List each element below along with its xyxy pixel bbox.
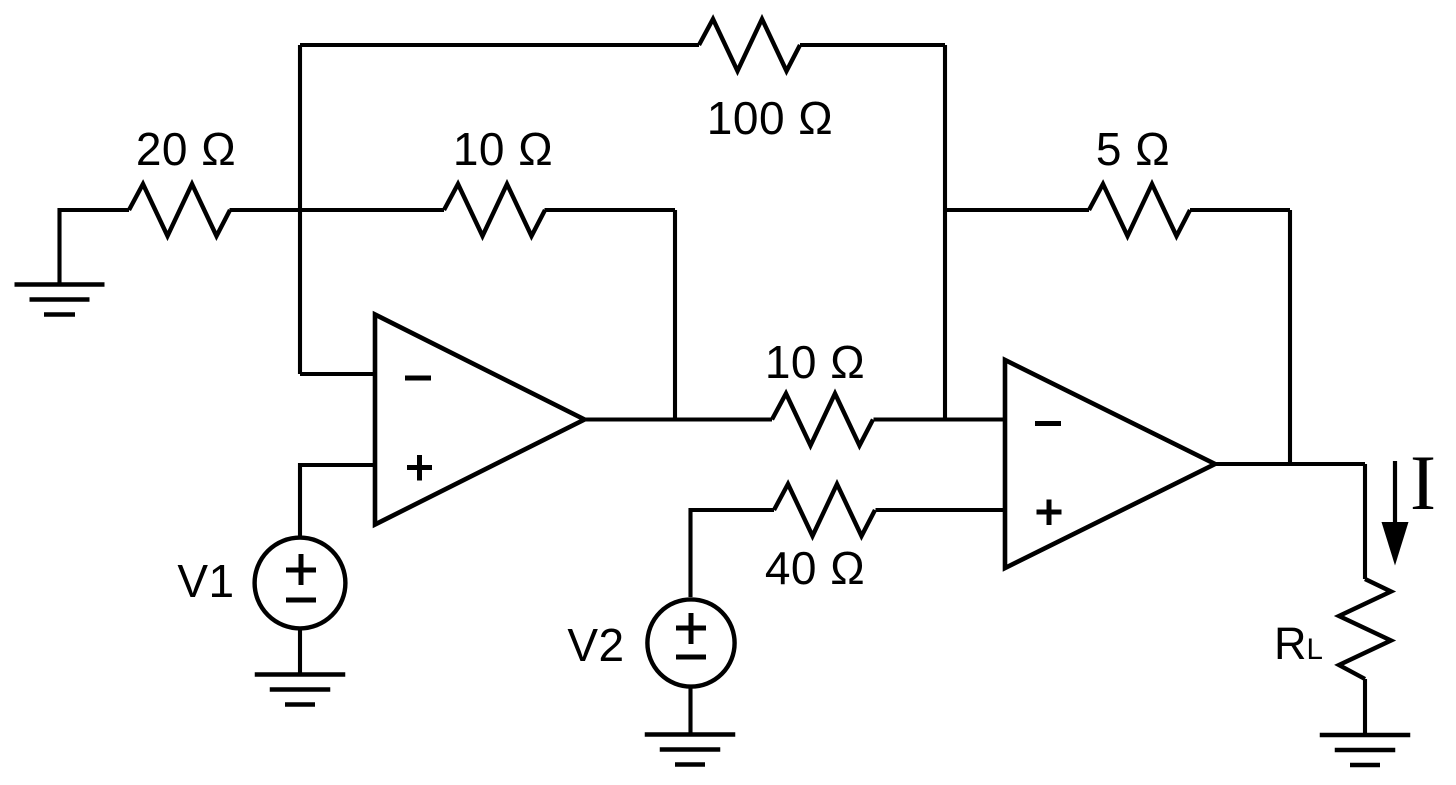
resistor R1 20-ohm — [129, 184, 230, 236]
wire: top net to R3 — [300, 43, 699, 47]
wire: U2 output to load corner — [1215, 462, 1365, 466]
wire: R2 right side to corner — [545, 208, 676, 212]
svg-text:V1: V1 — [177, 555, 234, 607]
wire: V1 to ground — [298, 629, 302, 675]
svg-text:100 Ω: 100 Ω — [707, 92, 833, 144]
wire: inverting riser (node A) — [298, 45, 302, 374]
wire: V2 riser to R6 — [691, 510, 775, 597]
V2 plus-minus marks — [676, 613, 706, 657]
ground (under RL) — [1320, 735, 1411, 765]
resistor R5 10-ohm (between stages) — [772, 394, 873, 446]
ground (under V1) — [255, 675, 346, 705]
ground (left, under 20 ohm) — [15, 285, 105, 315]
voltage source V2 — [647, 599, 734, 686]
U1 minus sign — [405, 376, 431, 381]
svg-text:10 Ω: 10 Ω — [765, 336, 865, 388]
svg-text:V2: V2 — [567, 619, 624, 671]
wire: R4 to corner — [1190, 208, 1290, 212]
wire: corner down to U1 output node — [673, 210, 677, 420]
wire: U1 output to R5 — [585, 417, 773, 421]
U2 minus sign — [1035, 421, 1061, 426]
wire: U1 inverting input — [300, 372, 375, 376]
wire: R6 to U2 non-inverting input — [876, 508, 1006, 512]
svg-text:5 Ω: 5 Ω — [1096, 123, 1170, 175]
wire: right riser down to U2 inverting input — [943, 45, 947, 420]
wire: riser to R4 — [945, 208, 1089, 212]
ground (under V2) — [645, 735, 736, 765]
wire: V2 to ground — [688, 687, 692, 735]
svg-text:10 Ω: 10 Ω — [453, 123, 553, 175]
voltage source V1 — [255, 538, 346, 629]
resistor R6 40-ohm — [774, 484, 875, 536]
wire: corner down to RL — [1363, 464, 1367, 579]
svg-text:40 Ω: 40 Ω — [765, 542, 865, 594]
wire: R5 to U2 inverting input — [874, 417, 1006, 421]
op-amp U2 — [1005, 360, 1215, 568]
svg-text:I: I — [1410, 439, 1436, 526]
wire: corner down to U2 output — [1288, 210, 1292, 464]
wire: R1 to R2 (inverting node of U1) — [230, 208, 445, 212]
V1 plus-minus marks — [286, 554, 316, 600]
resistor RL (vertical) — [1339, 579, 1391, 679]
svg-text:20 Ω: 20 Ω — [136, 123, 236, 175]
resistor R3 100-ohm — [699, 19, 800, 71]
op-amp U1 — [375, 315, 585, 525]
wire: R3 to right riser — [800, 43, 945, 47]
U1 plus sign — [407, 455, 432, 481]
current arrow I — [1393, 461, 1397, 524]
wire: U1 non-inverting input from V1 — [300, 465, 375, 537]
resistor R4 5-ohm — [1089, 184, 1190, 236]
wire: RL to ground — [1363, 679, 1367, 735]
resistor R2 10-ohm (feedback U1) — [444, 184, 545, 236]
wire: left ground stem up to 20-ohm wire — [60, 210, 130, 285]
U2 plus sign — [1037, 500, 1062, 526]
